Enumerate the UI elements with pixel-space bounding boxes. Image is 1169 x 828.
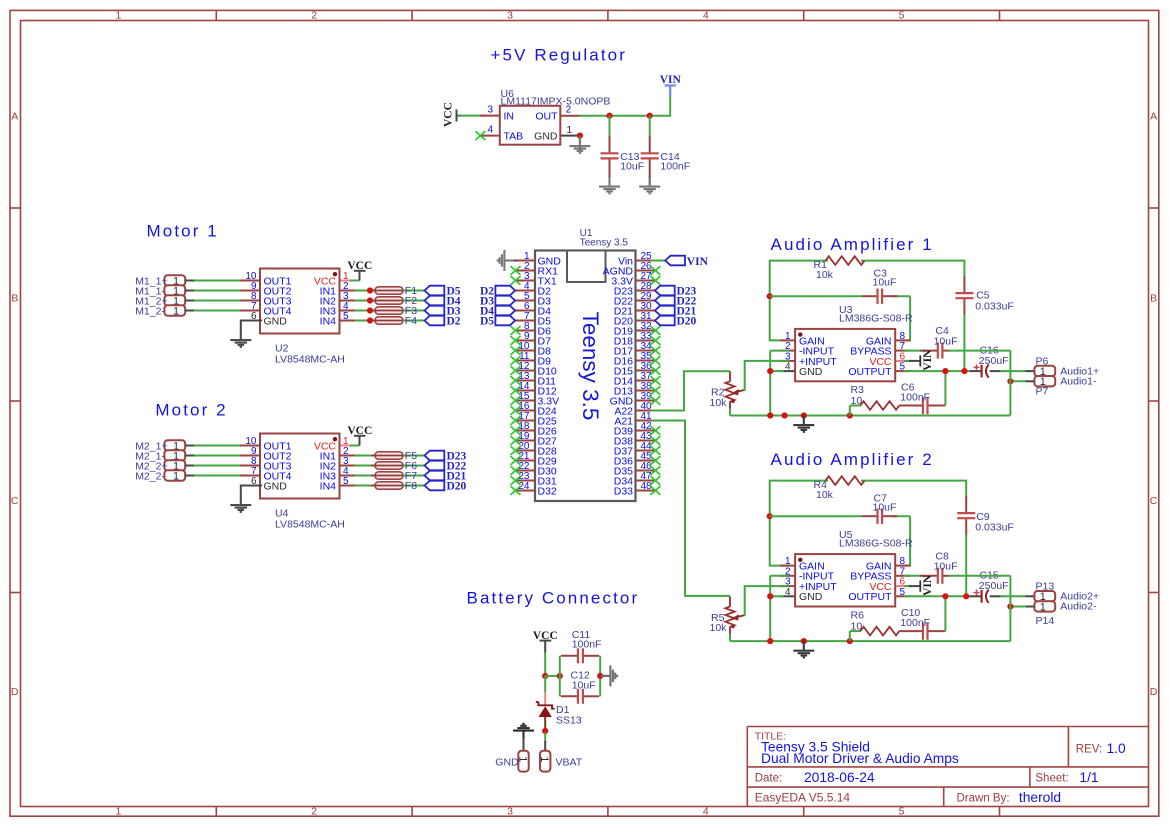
wire -INPUT to ground rail	[770, 575, 789, 577]
svg-text:VBAT: VBAT	[556, 756, 583, 768]
fuse F8	[371, 482, 407, 489]
no-connect X on U1 pin 17	[511, 416, 521, 425]
wire U6 GND to ground	[571, 135, 580, 137]
ruler letters left	[11, 111, 19, 699]
svg-text:D32: D32	[538, 485, 557, 497]
svg-text:P14: P14	[1036, 615, 1055, 627]
capacitor loop left/right rails	[559, 656, 561, 697]
svg-text:B: B	[11, 293, 18, 305]
no-connect X on U1 pin 24	[511, 486, 521, 495]
U1 left pins 1-24 with numbers and names	[515, 251, 561, 498]
wire VCC to U6 IN	[458, 115, 486, 117]
svg-text:+5V Regulator: +5V Regulator	[491, 46, 627, 65]
svg-text:Teensy 3.5: Teensy 3.5	[578, 312, 603, 421]
connector pad M1_1-	[164, 285, 185, 297]
svg-text:250uF: 250uF	[979, 580, 1009, 592]
resistor R1	[826, 256, 865, 265]
junction output at C9	[963, 593, 969, 599]
no-connect X on U1 pin 45	[650, 456, 660, 465]
svg-text:Date:: Date:	[755, 773, 783, 785]
svg-text:M1_2-: M1_2-	[135, 305, 165, 317]
wire pad M1_1- to U2	[185, 290, 246, 292]
svg-text:IN: IN	[504, 111, 515, 123]
junction bus left	[767, 412, 773, 418]
wire ground to GND pad	[523, 738, 525, 751]
power flag VCC at U4 pin1	[347, 425, 372, 446]
svg-text:2: 2	[311, 806, 317, 818]
wire U2 IN4 to fuse F4	[355, 320, 375, 322]
wire C5 down to output row	[963, 314, 965, 371]
svg-text:VIN: VIN	[922, 574, 934, 596]
no-connect X on U1 pin 35	[650, 356, 660, 365]
no-connect X on U1 pin 32	[650, 326, 660, 335]
svg-text:1: 1	[115, 10, 121, 22]
wire loop to ground	[600, 675, 609, 677]
wire OUTPUT row	[904, 595, 971, 597]
svg-text:Dual Motor Driver & Audio Amps: Dual Motor Driver & Audio Amps	[761, 751, 959, 766]
motor driver U2 LV8548MC-AH	[240, 269, 360, 334]
svg-text:P7: P7	[1036, 386, 1049, 398]
svg-text:100nF: 100nF	[572, 639, 602, 651]
svg-text:VCC: VCC	[347, 260, 372, 272]
net port D3	[425, 306, 445, 316]
wire pad M1_1+ to U2	[185, 280, 246, 282]
connector pad M2_1-	[164, 450, 185, 462]
ground right of capacitor loop	[601, 665, 617, 686]
capacitor C14	[641, 116, 659, 186]
power flag VCC (battery)	[533, 630, 558, 653]
net port D2 at U1 pin 4	[495, 286, 515, 296]
svg-text:Sheet:: Sheet:	[1035, 773, 1068, 785]
svg-text:3: 3	[487, 105, 493, 116]
svg-text:5: 5	[899, 10, 905, 22]
capacitor C10 100nF (Zobel)	[923, 596, 946, 640]
resistor R3 10 (Zobel)	[850, 401, 922, 415]
capacitor C7	[862, 509, 897, 524]
svg-text:LM1117IMPX-5.0NOPB: LM1117IMPX-5.0NOPB	[501, 96, 611, 108]
no-connect X on U1 pin 39	[650, 396, 660, 405]
capacitor C16 250uF polarized	[970, 364, 1001, 377]
junction below diode	[542, 728, 548, 734]
ruler ticks right	[1149, 208, 1159, 593]
svg-text:10uF: 10uF	[873, 502, 897, 514]
junction bus at R6	[847, 638, 853, 644]
svg-text:1: 1	[173, 305, 179, 317]
junction at F4 input	[367, 317, 373, 323]
wire P14 to ground	[1010, 606, 1027, 608]
op-amp U6 regulator LM1117	[480, 105, 580, 145]
svg-text:Audio2-: Audio2-	[1060, 601, 1097, 613]
connector pad GND	[517, 751, 529, 772]
svg-text:Audio Amplifier 2: Audio Amplifier 2	[771, 450, 934, 469]
no-connect X on U6 TAB pin 4	[475, 131, 485, 140]
junction bus at ground	[801, 412, 807, 418]
net port D20	[425, 481, 445, 491]
svg-text:10uF: 10uF	[572, 680, 596, 692]
wire feedback loop top (R4 net)	[770, 481, 828, 566]
svg-text:IN4: IN4	[320, 480, 337, 492]
resistor R6 10 (Zobel)	[850, 627, 922, 641]
wire U4 IN3 to fuse F7	[355, 475, 375, 477]
wire U2 IN2 to fuse F2	[355, 300, 375, 302]
svg-text:VIN: VIN	[660, 74, 682, 86]
connector pad M2_2+	[164, 460, 185, 472]
wire F7 to net port D21	[403, 475, 425, 477]
fuse F5	[371, 452, 407, 459]
no-connect X on U1 pin 11	[511, 356, 521, 365]
junction at loop left	[557, 673, 563, 679]
capacitor C3	[862, 289, 897, 304]
svg-text:REV:: REV:	[1076, 743, 1102, 755]
svg-text:GND: GND	[264, 480, 288, 492]
no-connect X on U1 pin 37	[650, 376, 660, 385]
svg-text:4: 4	[785, 362, 791, 373]
svg-text:GND: GND	[534, 131, 558, 143]
net port VIN	[665, 256, 685, 266]
net port D4 at U1 pin 6	[495, 306, 515, 316]
svg-text:100nF: 100nF	[900, 392, 930, 404]
svg-text:VIN: VIN	[687, 256, 709, 268]
power flag VIN at VCC pin	[904, 349, 934, 371]
no-connect X on U1 pin 13	[511, 376, 521, 385]
capacitor C6 100nF (Zobel)	[923, 371, 946, 414]
wire F1 to net port D5	[403, 290, 425, 292]
wire P7 to ground	[1010, 380, 1027, 382]
svg-text:0.033uF: 0.033uF	[975, 522, 1014, 534]
junction bus mid	[782, 412, 788, 418]
net port D5	[425, 286, 445, 296]
svg-text:OUTPUT: OUTPUT	[848, 591, 892, 603]
potentiometer R2 10k	[725, 371, 744, 415]
ground bus wire	[730, 640, 1010, 642]
no-connect X on U1 pin 8	[511, 326, 521, 335]
wire U6 OUT to VIN flag	[580, 95, 670, 115]
svg-text:D33: D33	[614, 485, 633, 497]
ground below C13	[599, 177, 620, 193]
wire F4 to net port D2	[403, 320, 425, 322]
wire node to capacitor loop	[545, 675, 561, 677]
potentiometer R5 10k	[725, 596, 744, 641]
ground above GND pad	[513, 724, 534, 740]
junction at gain loop left	[767, 513, 773, 519]
svg-text:100nF: 100nF	[660, 161, 690, 173]
svg-text:OUTPUT: OUTPUT	[848, 366, 892, 378]
connector pad M2_1+	[164, 440, 185, 452]
junction at F3 input	[367, 307, 373, 313]
svg-text:10uF: 10uF	[934, 561, 958, 573]
junction output at Zobel	[942, 368, 948, 374]
svg-text:10k: 10k	[710, 622, 728, 634]
svg-text:100nF: 100nF	[900, 617, 930, 629]
ground at U6 GND	[569, 136, 590, 153]
svg-text:A: A	[11, 111, 18, 123]
ground at U4 GND	[230, 496, 251, 512]
no-connect X on U1 pin 36	[650, 366, 660, 375]
ground at U1 pin1	[498, 250, 514, 271]
svg-text:0.033uF: 0.033uF	[975, 301, 1014, 313]
junction at U6 GND	[577, 133, 583, 139]
svg-text:2018-06-24: 2018-06-24	[804, 770, 875, 785]
svg-text:GND: GND	[799, 366, 823, 378]
svg-text:10: 10	[851, 621, 863, 633]
svg-text:3: 3	[507, 806, 513, 818]
title block	[747, 727, 1148, 807]
no-connect X on U1 pin 47	[650, 476, 660, 485]
svg-text:OUT: OUT	[535, 111, 558, 123]
no-connect X on U1 pin 18	[511, 426, 521, 435]
resistor R4	[826, 476, 865, 485]
svg-text:4: 4	[703, 806, 709, 818]
wire GND pin to rail	[770, 595, 784, 597]
no-connect X on U1 pin 26	[650, 266, 660, 275]
svg-text:therold: therold	[1019, 790, 1061, 805]
junction at GND pin row	[767, 368, 773, 374]
power flag VCC (regulator input)	[443, 102, 463, 127]
no-connect X on U1 pin 21	[511, 456, 521, 465]
wire C15 to P13	[1000, 595, 1027, 597]
no-connect X on U1 pin 38	[650, 386, 660, 395]
no-connect X on U1 pin 22	[511, 466, 521, 475]
capacitor C11 100nF	[561, 648, 599, 663]
wire F2 to net port D4	[403, 300, 425, 302]
svg-text:LV8548MC-AH: LV8548MC-AH	[275, 519, 345, 531]
wire U1 pin1 GND	[505, 260, 517, 262]
svg-text:P6: P6	[1036, 355, 1049, 367]
op-amp U3 LM386	[780, 329, 910, 381]
svg-text:F8: F8	[405, 480, 417, 492]
junction at loop right	[597, 673, 603, 679]
wire U1 pin25 Vin to VIN port	[651, 260, 665, 262]
svg-text:10k: 10k	[710, 397, 728, 409]
ground at U2 GND	[230, 331, 251, 347]
svg-text:LM386G-S08-R: LM386G-S08-R	[839, 538, 913, 550]
svg-text:10uF: 10uF	[934, 335, 958, 347]
svg-text:D2: D2	[447, 316, 461, 328]
power flag VCC at U2 pin1	[347, 260, 372, 281]
svg-text:2: 2	[311, 10, 317, 22]
wire U2 IN1 to fuse F1	[355, 290, 375, 292]
connector pad M1_2+	[164, 295, 185, 307]
connector pad P14	[1034, 601, 1055, 613]
ruler ticks left	[10, 208, 21, 593]
svg-text:LV8548MC-AH: LV8548MC-AH	[275, 354, 345, 366]
svg-text:Motor 2: Motor 2	[155, 401, 227, 420]
connector pad P6	[1034, 366, 1055, 378]
wire F6 to net port D22	[403, 465, 425, 467]
net port D22	[425, 461, 445, 471]
net port D21	[425, 471, 445, 481]
svg-text:1: 1	[1040, 601, 1046, 613]
no-connect X on U1 pin 48	[650, 486, 660, 495]
svg-text:VCC: VCC	[347, 425, 372, 437]
svg-text:D5: D5	[480, 316, 494, 328]
connector pad P13	[1034, 591, 1055, 603]
wire VCC down to filter node	[544, 652, 546, 677]
wire GND pin to rail	[770, 370, 784, 372]
no-connect X on U1 pin 15	[511, 396, 521, 405]
svg-text:1: 1	[115, 806, 121, 818]
wire diode to VBAT pad	[544, 733, 546, 751]
net port D21 at U1 pin 30	[655, 306, 675, 316]
no-connect X on U1 pin 10	[511, 346, 521, 355]
no-connect X on U1 pin 44	[650, 446, 660, 455]
svg-text:4: 4	[487, 125, 493, 136]
junction at GND pin row	[767, 593, 773, 599]
connector pad M1_1+	[164, 275, 185, 287]
svg-text:1: 1	[567, 125, 573, 136]
svg-text:Battery Connector: Battery Connector	[467, 588, 640, 607]
svg-text:Audio Amplifier 1: Audio Amplifier 1	[771, 235, 934, 254]
svg-text:10uF: 10uF	[620, 161, 644, 173]
ground bus wire	[730, 415, 1010, 417]
svg-text:F4: F4	[405, 315, 417, 327]
no-connect X on U1 pin 27	[650, 276, 660, 285]
junction bus at R3	[847, 412, 853, 418]
wire pad M2_2+ to U4	[185, 465, 246, 467]
wire U4 GND to ground	[241, 486, 262, 496]
connector pad M2_2-	[164, 470, 185, 482]
svg-text:10k: 10k	[816, 489, 834, 501]
svg-text:1/1: 1/1	[1079, 770, 1098, 785]
ruler letters right	[1150, 111, 1158, 699]
svg-text:D: D	[1150, 686, 1158, 698]
no-connect X on U1 pin 14	[511, 386, 521, 395]
svg-text:1: 1	[173, 470, 179, 482]
title block texts	[755, 730, 1126, 805]
net port D22 at U1 pin 29	[655, 296, 675, 306]
junction at F1 input	[367, 287, 373, 293]
no-connect X on U1 pin 3	[511, 276, 521, 285]
wire A21 from U1 pin41 to R5	[651, 421, 730, 596]
svg-text:D20: D20	[447, 481, 467, 493]
wire VCC node to diode	[544, 676, 546, 693]
svg-text:3: 3	[507, 10, 513, 22]
wire mid loop through C7	[770, 515, 862, 517]
svg-text:4: 4	[703, 10, 709, 22]
no-connect X on U1 pin 43	[650, 436, 660, 445]
U1 right pins 25-48 with numbers and names	[603, 251, 656, 498]
wire C16 to P6	[1000, 370, 1027, 372]
capacitor C9 0.033uF	[957, 496, 975, 535]
wire feedback loop top (R1 net)	[770, 261, 828, 341]
wire F3 to net port D3	[403, 310, 425, 312]
no-connect X on U1 pin 20	[511, 446, 521, 455]
svg-text:IN4: IN4	[320, 315, 337, 327]
no-connect X on U1 pin 12	[511, 366, 521, 375]
fuse F4	[371, 317, 407, 324]
svg-text:1.0: 1.0	[1107, 741, 1127, 756]
wire pad M2_2- to U4	[185, 475, 246, 477]
ruler numbers top	[115, 10, 904, 22]
svg-text:Motor 1: Motor 1	[147, 222, 219, 241]
svg-text:C: C	[11, 495, 19, 507]
wire -INPUT to ground rail	[770, 350, 789, 352]
no-connect X on U1 pin 23	[511, 476, 521, 485]
wire U2 GND to ground	[241, 321, 262, 331]
junction on OUT net at C14	[647, 113, 653, 119]
no-connect X on U1 pin 9	[511, 336, 521, 345]
wire pad M1_2+ to U2	[185, 300, 246, 302]
power flag VIN at VCC pin	[904, 574, 934, 596]
wire BYPASS through C8 to ground drop	[904, 568, 1010, 641]
svg-text:C: C	[1150, 495, 1158, 507]
junction bus at ground	[801, 638, 807, 644]
junction VCC node	[542, 673, 548, 679]
svg-text:10uF: 10uF	[873, 277, 897, 289]
wire pad M2_1- to U4	[185, 455, 246, 457]
wire F8 to net port D20	[403, 485, 425, 487]
connector pad M1_2-	[164, 305, 185, 317]
net port D3 at U1 pin 5	[495, 296, 515, 306]
net flag VIN (regulator output)	[660, 74, 682, 96]
no-connect X on U1 pin 46	[650, 466, 660, 475]
connector pad P7	[1034, 376, 1055, 388]
MCU U1 Teensy 3.5 body outline	[535, 251, 636, 502]
op-amp U5 LM386	[780, 554, 910, 606]
ground below C14	[639, 177, 660, 193]
fuse F1	[371, 287, 407, 294]
svg-text:5: 5	[343, 476, 349, 487]
svg-text:GND: GND	[264, 315, 288, 327]
junction at P7 row	[1007, 378, 1013, 384]
ground symbol on bus	[793, 416, 814, 432]
svg-text:B: B	[1150, 293, 1157, 305]
net port D20 at U1 pin 31	[655, 316, 675, 326]
junction at gain loop left	[767, 293, 773, 299]
svg-text:Teensy 3.5: Teensy 3.5	[580, 237, 629, 248]
svg-text:SS13: SS13	[556, 714, 582, 726]
no-connect X on U1 pin 34	[650, 346, 660, 355]
no-connect X on U1 pin 33	[650, 336, 660, 345]
net port D4	[425, 296, 445, 306]
svg-text:250uF: 250uF	[979, 355, 1009, 367]
junction at F2 input	[367, 297, 373, 303]
ruler numbers bottom	[115, 806, 904, 818]
capacitor C5 0.033uF	[955, 276, 973, 315]
connector pad VBAT	[538, 751, 550, 772]
svg-text:D: D	[11, 686, 19, 698]
fuse F3	[371, 307, 407, 314]
wire OUTPUT row	[904, 370, 971, 372]
wire A22 from U1 pin40 to R2	[651, 371, 730, 410]
no-connect X on U1 pin 2	[511, 266, 521, 275]
capacitor C15 250uF polarized	[970, 590, 1001, 603]
wire mid loop through C3	[770, 295, 862, 297]
svg-text:VIN: VIN	[922, 349, 934, 371]
no-connect X on U1 pin 42	[650, 426, 660, 435]
wire F5 to net port D23	[403, 455, 425, 457]
net port D2	[425, 316, 445, 326]
svg-text:10: 10	[851, 395, 863, 407]
svg-text:P13: P13	[1036, 581, 1055, 593]
svg-text:LM386G-S08-R: LM386G-S08-R	[839, 313, 913, 325]
net port D23 at U1 pin 28	[655, 286, 675, 296]
net port D23	[425, 451, 445, 461]
svg-text:R6: R6	[851, 609, 865, 621]
junction on OUT net at C13	[606, 113, 612, 119]
wire R5 wiper to +INPUT	[745, 586, 789, 616]
motor driver U4 LV8548MC-AH	[240, 434, 360, 499]
junction at P14 row	[1007, 603, 1013, 609]
ground symbol on bus	[793, 641, 814, 657]
wire U4 IN2 to fuse F6	[355, 465, 375, 467]
svg-text:1: 1	[538, 756, 550, 762]
wire pad M1_2- to U2	[185, 310, 246, 312]
junction output at Zobel	[942, 593, 948, 599]
svg-text:Drawn By:: Drawn By:	[957, 793, 1010, 805]
diode D1 SS13 schottky	[536, 692, 555, 730]
no-connect X on U1 pin 19	[511, 436, 521, 445]
